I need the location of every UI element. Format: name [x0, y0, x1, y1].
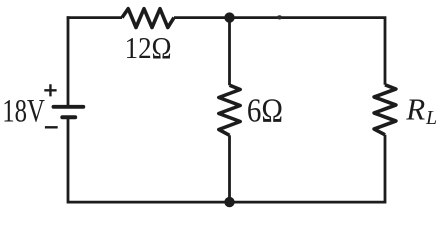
node B bottom junction dot	[224, 197, 234, 207]
battery bottom plate	[62, 115, 75, 119]
wire bottom-left segment	[68, 119, 230, 202]
wire top-left segment	[68, 16, 122, 18]
wire middle top segment	[228, 16, 231, 85]
svg-text:6Ω: 6Ω	[247, 91, 283, 129]
svg-text:18V: 18V	[2, 93, 45, 129]
blemish on top wire	[277, 15, 282, 19]
node A top junction dot	[224, 12, 234, 22]
plus sign of source	[44, 84, 56, 96]
minus sign of source	[45, 126, 58, 128]
battery top plate	[54, 105, 84, 109]
resistor R 12ohm zigzag	[122, 9, 174, 28]
resistor RL zigzag	[374, 85, 396, 135]
svg-text:L: L	[425, 107, 437, 129]
wire left-top segment	[67, 18, 70, 105]
wire top-right segment	[174, 18, 385, 85]
wire middle bottom segment	[228, 135, 231, 202]
resistor 6ohm zigzag	[219, 85, 240, 135]
svg-text:R: R	[405, 92, 425, 127]
wire right-bottom segment	[230, 135, 386, 202]
svg-text:12Ω: 12Ω	[125, 31, 172, 65]
